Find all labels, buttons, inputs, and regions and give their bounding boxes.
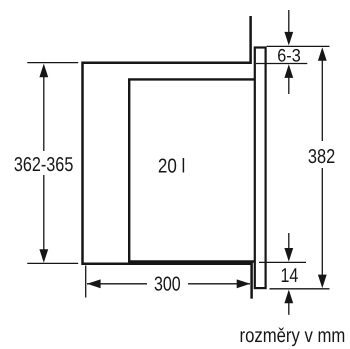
svg-text:rozměry v mm: rozměry v mm <box>240 325 346 347</box>
arrow down 6-3 (above) <box>288 10 290 34</box>
arrow up 362-365 <box>39 64 48 78</box>
extension line 300 left <box>85 266 87 298</box>
extension line bottom-left (362-365 lower) <box>27 262 78 264</box>
svg-text:300: 300 <box>154 274 181 296</box>
extension line top-left (362-365 upper) <box>27 62 78 64</box>
arrow down 362-365 <box>39 249 48 263</box>
svg-text:382: 382 <box>308 146 335 168</box>
arrow up 14 (below) <box>284 290 293 304</box>
extension line bar-bottom (14 lower / 382 bottom) <box>270 288 330 290</box>
svg-text:14: 14 <box>281 265 299 287</box>
arrow up 382 <box>318 47 327 61</box>
niche outline (cabinet opening) <box>83 16 252 299</box>
appliance front frame bar <box>255 48 266 289</box>
extension line 14 upper <box>259 261 306 263</box>
extension line bar-top (6-3 upper / 382 top) <box>267 45 330 47</box>
arrow down 14 (above) <box>288 233 290 250</box>
dim line 362-365 <box>43 75 45 151</box>
svg-text:362-365: 362-365 <box>14 154 73 176</box>
svg-text:6-3: 6-3 <box>277 45 300 65</box>
arrow up 6-3 (below) <box>284 64 293 78</box>
svg-text:20 l: 20 l <box>158 155 185 177</box>
dim line 382 <box>321 59 323 141</box>
arrow down 382 <box>318 275 327 289</box>
inner cavity box (20 l) <box>129 79 255 261</box>
extension line 6-3 lower <box>256 63 307 65</box>
dim line 300 <box>87 283 147 285</box>
arrow left 300 <box>87 279 101 288</box>
arrow right 300 <box>237 279 251 288</box>
